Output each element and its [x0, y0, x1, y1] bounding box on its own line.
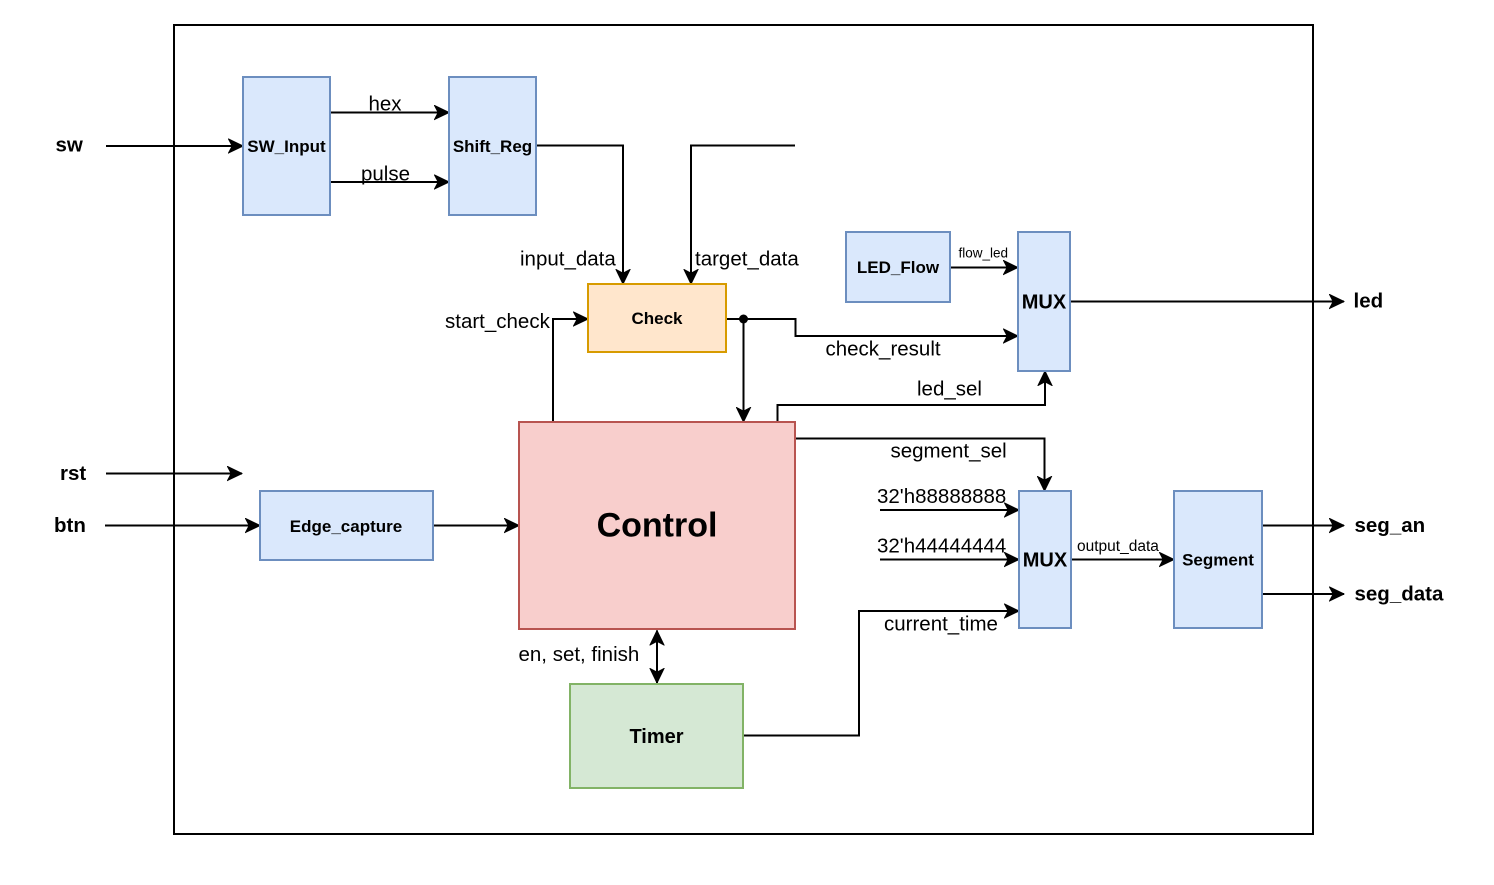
- svg-text:Control: Control: [597, 507, 718, 545]
- svg-text:rst: rst: [60, 462, 86, 485]
- svg-text:MUX: MUX: [1023, 550, 1068, 572]
- svg-text:led: led: [1354, 290, 1384, 313]
- svg-text:output_data: output_data: [1077, 538, 1159, 555]
- svg-text:Check: Check: [631, 309, 683, 328]
- svg-text:en, set, finish: en, set, finish: [519, 643, 640, 666]
- svg-text:seg_an: seg_an: [1355, 514, 1426, 537]
- svg-text:Segment: Segment: [1182, 551, 1254, 570]
- svg-text:input_data: input_data: [520, 248, 616, 271]
- svg-text:hex: hex: [369, 93, 403, 116]
- svg-text:flow_led: flow_led: [959, 246, 1009, 261]
- svg-text:seg_data: seg_data: [1355, 583, 1444, 606]
- svg-text:Edge_capture: Edge_capture: [290, 517, 402, 536]
- svg-text:segment_sel: segment_sel: [891, 440, 1007, 463]
- svg-text:btn: btn: [54, 514, 86, 537]
- svg-text:sw: sw: [56, 134, 83, 157]
- svg-text:start_check: start_check: [445, 310, 551, 333]
- svg-text:target_data: target_data: [695, 248, 799, 271]
- svg-text:32'h88888888: 32'h88888888: [877, 485, 1006, 508]
- svg-text:LED_Flow: LED_Flow: [857, 258, 940, 277]
- svg-text:Shift_Reg: Shift_Reg: [453, 137, 532, 156]
- svg-text:check_result: check_result: [826, 338, 941, 361]
- svg-text:SW_Input: SW_Input: [247, 137, 326, 156]
- svg-text:pulse: pulse: [361, 163, 410, 186]
- svg-text:Timer: Timer: [629, 726, 683, 748]
- svg-text:MUX: MUX: [1022, 292, 1067, 314]
- svg-text:current_time: current_time: [884, 613, 998, 636]
- svg-text:32'h44444444: 32'h44444444: [877, 535, 1006, 558]
- svg-text:led_sel: led_sel: [917, 378, 982, 401]
